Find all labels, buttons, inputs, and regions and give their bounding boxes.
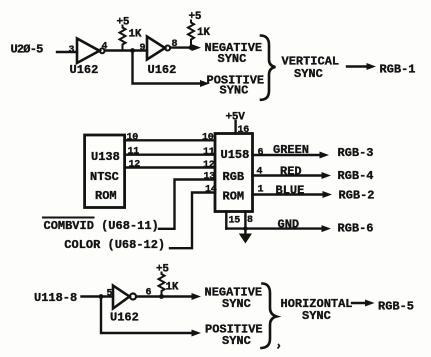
wire red to RGB-4 <box>253 174 323 176</box>
svg-text:SYNC: SYNC <box>222 334 251 348</box>
svg-text:ROM: ROM <box>95 189 117 203</box>
svg-text:11: 11 <box>128 147 140 158</box>
svg-text:U158: U158 <box>221 148 250 162</box>
IC U158 RGB ROM <box>215 134 253 212</box>
svg-text:RGB-6: RGB-6 <box>338 222 374 236</box>
arrowhead negative sync <box>192 293 202 300</box>
svg-text:NTSC: NTSC <box>90 170 119 184</box>
wire U20-5 to inverter input <box>57 51 77 53</box>
resistor 1K (second pull-up) <box>188 21 194 48</box>
svg-text:RGB-5: RGB-5 <box>378 300 414 314</box>
pin 15 stub <box>225 212 227 229</box>
inverter U162 (first, vertical sync) <box>77 39 100 64</box>
svg-text:U162: U162 <box>110 311 139 325</box>
svg-text:12: 12 <box>129 160 141 171</box>
svg-text:1K: 1K <box>197 27 210 39</box>
wire COMBVID to pin 13 <box>159 180 215 229</box>
wire inverter output to negative sync <box>136 295 192 297</box>
svg-text:U118-8: U118-8 <box>34 291 77 305</box>
junction node <box>159 294 164 299</box>
wire bus line pin 12 <box>125 166 215 168</box>
wire gnd bus to RGB-6 <box>226 227 322 229</box>
svg-text:SYNC: SYNC <box>294 67 323 81</box>
ground <box>244 229 246 234</box>
svg-text:11: 11 <box>203 147 215 158</box>
svg-text:SYNC: SYNC <box>302 309 331 323</box>
svg-text:1K: 1K <box>166 282 179 294</box>
wire blue to RGB-2 <box>253 193 324 195</box>
svg-text:ROM: ROM <box>223 190 245 204</box>
stray mark (scan tick below brace) <box>278 345 280 349</box>
svg-text:16: 16 <box>238 125 250 136</box>
junction node <box>189 45 194 50</box>
svg-text:SYNC: SYNC <box>220 84 249 98</box>
svg-text:COMBVID (U68-11): COMBVID (U68-11) <box>44 219 159 233</box>
brace (vertical sync group) <box>261 36 276 100</box>
svg-text:10: 10 <box>127 133 139 144</box>
wire U118-8 to inverter <box>82 295 114 297</box>
wire COLOR to pin 14 <box>170 193 215 249</box>
brace (horizontal sync group) <box>262 284 277 349</box>
svg-text:9: 9 <box>140 43 146 54</box>
resistor 1K (horizontal sync pull-up) <box>159 273 165 297</box>
wire inverter2 output to negative sync <box>170 46 192 48</box>
svg-text:8: 8 <box>247 215 253 226</box>
svg-text:SYNC: SYNC <box>222 297 251 311</box>
arrowhead positive sync <box>192 330 202 337</box>
svg-text:13: 13 <box>204 172 216 183</box>
wire inverter1 output to inverter2 input <box>105 49 147 51</box>
svg-text:RGB-4: RGB-4 <box>338 169 374 183</box>
resistor 1K (first pull-up) <box>120 26 126 51</box>
svg-text:3: 3 <box>69 45 75 56</box>
wire bus line pin 10 <box>125 139 215 141</box>
svg-text:RGB-3: RGB-3 <box>338 146 374 160</box>
svg-text:15: 15 <box>229 216 241 227</box>
svg-text:RGB-2: RGB-2 <box>339 189 375 203</box>
wire arrow to RGB-1 <box>347 65 367 67</box>
svg-text:U162: U162 <box>70 63 99 77</box>
inverter U162 (second, vertical sync) <box>147 37 165 60</box>
svg-text:5: 5 <box>107 289 113 300</box>
svg-text:RGB: RGB <box>223 170 245 184</box>
svg-text:12: 12 <box>203 160 215 171</box>
wire to positive sync <box>133 51 201 84</box>
pin 8 stub <box>244 212 246 229</box>
junction node <box>243 226 247 230</box>
wire green to RGB-3 <box>253 154 321 156</box>
inverter U162 (horizontal sync) <box>113 286 130 309</box>
wire arrow to RGB-5 <box>352 302 366 304</box>
IC U138 NTSC ROM <box>85 135 125 208</box>
svg-text:6: 6 <box>258 148 264 159</box>
wire bus line pin 11 <box>125 153 215 155</box>
svg-text:RGB-1: RGB-1 <box>380 63 416 77</box>
svg-text:10: 10 <box>202 133 214 144</box>
wire to positive sync (horizontal) <box>101 297 192 334</box>
junction node (positive sync tap) <box>99 294 104 299</box>
svg-text:U162: U162 <box>148 63 177 77</box>
arrowhead positive sync <box>200 80 210 87</box>
svg-text:U138: U138 <box>91 150 120 164</box>
svg-text:1K: 1K <box>129 29 142 41</box>
svg-text:GND: GND <box>278 218 300 232</box>
svg-text:U2Ø-5: U2Ø-5 <box>11 43 44 57</box>
svg-text:COLOR (U68-12): COLOR (U68-12) <box>64 238 165 252</box>
svg-text:SYNC: SYNC <box>218 52 247 66</box>
pin 16 stub <box>234 121 236 134</box>
arrowhead negative sync <box>192 44 202 51</box>
junction node (positive sync tap) <box>130 48 135 53</box>
